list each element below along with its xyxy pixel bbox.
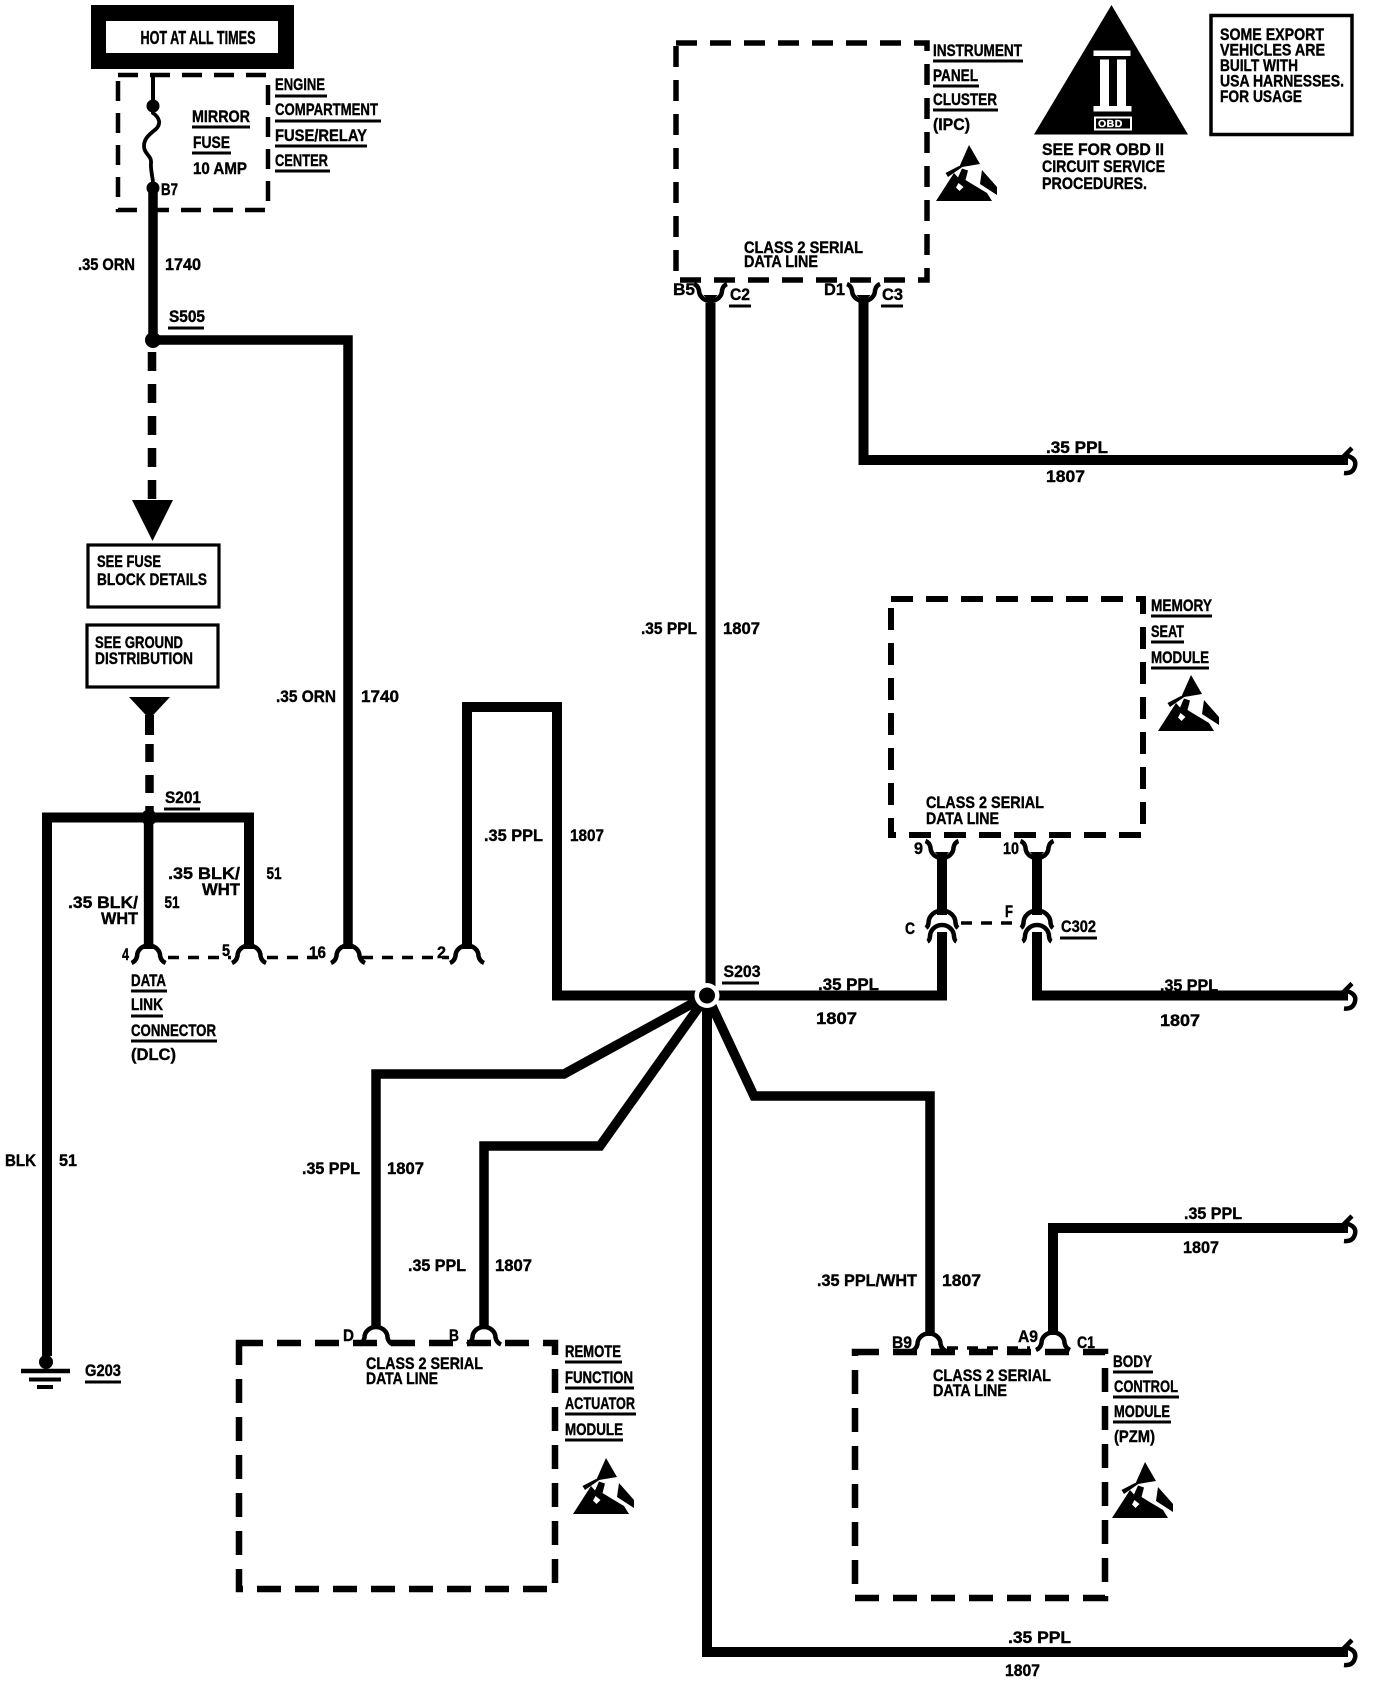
dashed wire S505 down to fuse block details xyxy=(148,352,157,502)
svg-text:MODULE: MODULE xyxy=(1114,1402,1170,1421)
svg-text:.35 ORN: .35 ORN xyxy=(78,255,135,274)
svg-text:.35 PPL: .35 PPL xyxy=(1160,976,1218,995)
svg-text:DATA LINE: DATA LINE xyxy=(926,809,999,828)
connector pin 10 (MSM) xyxy=(1021,841,1054,858)
svg-text:.35 PPL: .35 PPL xyxy=(302,1159,360,1178)
label MEMORY SEAT MODULE xyxy=(1151,596,1213,668)
connector DLC pin 5 xyxy=(232,946,266,963)
connector pin D (RFA) xyxy=(359,1327,393,1344)
wire S201 right to DLC pin 5 (.35 BLK/WHT 51) xyxy=(149,818,249,950)
svg-text:D: D xyxy=(343,1326,354,1345)
OBD II triangle symbol xyxy=(1034,5,1188,135)
label SEE FOR OBD II CIRCUIT SERVICE PROCEDURES xyxy=(1042,140,1165,193)
svg-text:DISTRIBUTION: DISTRIBUTION xyxy=(95,649,193,668)
svg-text:C1: C1 xyxy=(1077,1333,1095,1352)
svg-text:FUNCTION: FUNCTION xyxy=(565,1368,633,1387)
remote function actuator module dashed box xyxy=(239,1343,555,1589)
svg-text:.35 PPL: .35 PPL xyxy=(1046,438,1108,457)
wire fuse feed stub xyxy=(151,75,155,106)
svg-text:COMPARTMENT: COMPARTMENT xyxy=(275,100,378,119)
svg-text:DATA LINE: DATA LINE xyxy=(933,1381,1007,1400)
wire DLC pin 2 loop to S203 (.35 PPL 1807) xyxy=(467,707,700,996)
power feed box HOT AT ALL TIMES xyxy=(91,5,294,69)
note box SEE GROUND DISTRIBUTION xyxy=(87,625,218,687)
svg-text:1740: 1740 xyxy=(361,687,399,706)
wire B7 to S505 (.35 ORN 1740) xyxy=(148,192,158,340)
svg-text:CLUSTER: CLUSTER xyxy=(933,90,997,109)
svg-text:MIRROR: MIRROR xyxy=(192,107,250,126)
svg-text:LINK: LINK xyxy=(131,995,164,1014)
svg-text:.35 PPL: .35 PPL xyxy=(1008,1628,1071,1647)
svg-text:1807: 1807 xyxy=(1160,1011,1200,1030)
svg-text:D1: D1 xyxy=(824,280,845,299)
svg-text:S505: S505 xyxy=(169,307,205,326)
wire S203 right to C302 pin C (.35 PPL 1807) xyxy=(707,932,942,996)
svg-text:PROCEDURES.: PROCEDURES. xyxy=(1042,174,1147,193)
svg-text:HOT AT ALL TIMES: HOT AT ALL TIMES xyxy=(141,28,256,48)
wire S203 to BCM pin B9 (.35 PPL/WHT 1807) xyxy=(707,996,930,1337)
instrument panel cluster dashed box xyxy=(676,43,927,280)
svg-text:1807: 1807 xyxy=(1046,467,1085,486)
svg-text:C2: C2 xyxy=(730,285,750,304)
svg-text:REMOTE: REMOTE xyxy=(565,1342,621,1361)
svg-text:A9: A9 xyxy=(1018,1327,1038,1346)
in-line connector C302 pin F xyxy=(1021,910,1053,941)
svg-text:B5: B5 xyxy=(673,280,695,299)
svg-text:WHT: WHT xyxy=(101,909,139,928)
fuse/relay center dashed box xyxy=(118,75,268,210)
wire S203 up to IPC pin B5 (.35 PPL 1807) xyxy=(706,303,716,990)
wire S203 to RFA pin B (.35 PPL 1807) xyxy=(484,996,707,1330)
svg-text:1807: 1807 xyxy=(495,1256,532,1275)
svg-text:4: 4 xyxy=(122,945,129,964)
note box SEE FUSE BLOCK DETAILS xyxy=(88,545,219,607)
ESD symbol (RFA) xyxy=(573,1458,634,1514)
label DATA LINK CONNECTOR (DLC) xyxy=(131,971,217,1064)
wire BCM pin A9 up and right (.35 PPL 1807) xyxy=(1053,1228,1348,1335)
svg-text:SEAT: SEAT xyxy=(1151,622,1184,641)
label INSTRUMENT PANEL CLUSTER (IPC) xyxy=(933,41,1023,134)
connector DLC pin 2 xyxy=(450,946,484,963)
connector pin B (RFA) xyxy=(467,1327,501,1344)
svg-text:C3: C3 xyxy=(882,285,903,304)
label ENGINE COMPARTMENT FUSE/RELAY CENTER xyxy=(275,75,381,171)
svg-text:B7: B7 xyxy=(161,180,178,199)
ESD symbol (MSM) xyxy=(1158,675,1219,731)
ground G203 xyxy=(21,1355,70,1387)
ESD symbol (BCM) xyxy=(1112,1462,1173,1518)
wire continuation hook xyxy=(1344,1216,1355,1241)
svg-text:BLOCK DETAILS: BLOCK DETAILS xyxy=(97,570,207,589)
svg-text:B: B xyxy=(449,1326,459,1345)
svg-text:.35 PPL/WHT: .35 PPL/WHT xyxy=(817,1271,918,1290)
dashed connector face line DLC xyxy=(168,956,231,960)
wire S203 to RFA pin D (.35 PPL 1807) xyxy=(376,996,707,1330)
svg-text:(IPC): (IPC) xyxy=(933,115,970,134)
dashed line C to F xyxy=(961,921,1018,925)
wire C302 pin F to right (.35 PPL 1807) xyxy=(1037,932,1348,996)
svg-text:51: 51 xyxy=(165,893,180,912)
svg-text:.35 ORN: .35 ORN xyxy=(276,687,336,706)
svg-text:.35 PPL: .35 PPL xyxy=(1184,1204,1242,1223)
svg-text:FUSE/RELAY: FUSE/RELAY xyxy=(275,126,368,145)
svg-text:OBD: OBD xyxy=(1098,118,1123,130)
splice S201 xyxy=(141,810,157,826)
ESD symbol (IPC) xyxy=(936,145,997,201)
dashed pin face line B9 to A9 xyxy=(947,1346,1030,1350)
in-line connector C302 pin C xyxy=(926,910,958,941)
label BODY CONTROL MODULE (PZM) xyxy=(1113,1352,1179,1446)
svg-text:51: 51 xyxy=(59,1151,77,1170)
connector pin B9 (BCM) xyxy=(912,1334,946,1352)
body control module dashed box xyxy=(855,1352,1105,1598)
node terminal B7 xyxy=(147,182,160,195)
wire continuation hook xyxy=(1344,448,1355,473)
wire pin 9 to C302 pin C xyxy=(937,856,947,915)
svg-text:MODULE: MODULE xyxy=(565,1420,623,1439)
svg-text:.35 PPL: .35 PPL xyxy=(818,975,879,994)
svg-text:DATA: DATA xyxy=(131,971,166,990)
wire S505 to DLC pin 16 (.35 ORN 1740) xyxy=(153,340,348,949)
svg-text:51: 51 xyxy=(267,864,282,883)
svg-text:G203: G203 xyxy=(85,1361,121,1380)
svg-text:S203: S203 xyxy=(724,962,761,981)
connector DLC pin 16 xyxy=(331,946,365,963)
svg-text:1807: 1807 xyxy=(723,619,760,638)
svg-text:10: 10 xyxy=(1003,839,1019,858)
svg-text:F: F xyxy=(1005,902,1013,921)
svg-text:.35 PPL: .35 PPL xyxy=(484,826,543,845)
splice S203 node dot xyxy=(695,983,720,1008)
svg-text:SEE FUSE: SEE FUSE xyxy=(97,552,161,571)
svg-text:CONNECTOR: CONNECTOR xyxy=(131,1021,216,1040)
arrow below SEE GROUND DISTRIBUTION xyxy=(129,697,170,719)
wire S203 down to bottom right (.35 PPL 1807) xyxy=(707,996,1348,1653)
svg-text:FOR USAGE: FOR USAGE xyxy=(1220,87,1302,106)
svg-text:S201: S201 xyxy=(165,788,201,807)
svg-text:1807: 1807 xyxy=(942,1271,981,1290)
svg-text:CONTROL: CONTROL xyxy=(1114,1377,1178,1396)
svg-text:1807: 1807 xyxy=(570,826,604,845)
wire continuation hook xyxy=(1344,984,1355,1009)
svg-text:.35 PPL: .35 PPL xyxy=(408,1256,466,1275)
svg-text:CENTER: CENTER xyxy=(275,151,328,170)
svg-text:1807: 1807 xyxy=(1183,1238,1219,1257)
connector pin D1 (C3) xyxy=(847,284,880,301)
wire S201 down to DLC pin 4 (.35 BLK/WHT 51) xyxy=(144,823,154,949)
svg-text:WHT: WHT xyxy=(202,880,241,899)
value label MIRROR FUSE 10 AMP xyxy=(192,107,250,178)
splice S505 xyxy=(145,332,161,348)
svg-text:.35 PPL: .35 PPL xyxy=(641,619,697,638)
svg-text:1807: 1807 xyxy=(387,1159,424,1178)
dashed wire down to S201 xyxy=(145,715,154,735)
svg-text:10 AMP: 10 AMP xyxy=(193,159,247,178)
svg-text:BODY: BODY xyxy=(1113,1352,1153,1371)
svg-text:1740: 1740 xyxy=(165,255,201,274)
wire D1 to right (.35 PPL 1807) xyxy=(864,300,1349,460)
wire S201 left to ground G203 (BLK 51) xyxy=(47,818,155,1357)
svg-text:MODULE: MODULE xyxy=(1151,648,1209,667)
svg-text:PANEL: PANEL xyxy=(933,66,978,85)
svg-text:C: C xyxy=(905,919,915,938)
svg-text:DATA LINE: DATA LINE xyxy=(744,252,818,271)
connector pin B5 (C2) xyxy=(694,284,727,301)
svg-text:(PZM): (PZM) xyxy=(1114,1427,1155,1446)
svg-text:1807: 1807 xyxy=(816,1009,857,1028)
node fuse top terminal xyxy=(147,100,160,113)
connector DLC pin 4 xyxy=(132,946,166,963)
svg-text:FUSE: FUSE xyxy=(193,133,230,152)
svg-text:MEMORY: MEMORY xyxy=(1151,596,1213,615)
connector pin A9 (BCM) xyxy=(1036,1333,1070,1351)
svg-text:ENGINE: ENGINE xyxy=(275,75,325,94)
svg-text:INSTRUMENT: INSTRUMENT xyxy=(933,41,1022,60)
svg-text:1807: 1807 xyxy=(1005,1661,1040,1680)
wire continuation hook xyxy=(1344,1640,1355,1665)
svg-text:BLK: BLK xyxy=(5,1151,37,1170)
connector pin 9 (MSM) xyxy=(926,841,959,858)
fuse F (MIRROR FUSE 10 AMP) element xyxy=(144,107,159,182)
label REMOTE FUNCTION ACTUATOR MODULE xyxy=(565,1342,636,1440)
arrow to SEE FUSE BLOCK DETAILS xyxy=(132,500,173,541)
svg-text:DATA LINE: DATA LINE xyxy=(366,1369,438,1388)
svg-text:(DLC): (DLC) xyxy=(131,1045,176,1064)
svg-text:C302: C302 xyxy=(1061,917,1096,936)
note box SOME EXPORT VEHICLES xyxy=(1211,16,1352,135)
svg-text:B9: B9 xyxy=(892,1333,912,1352)
wire pin 10 to C302 pin F xyxy=(1032,856,1042,915)
svg-text:ACTUATOR: ACTUATOR xyxy=(565,1394,635,1413)
svg-text:9: 9 xyxy=(914,839,923,858)
memory seat module dashed box xyxy=(891,599,1143,835)
